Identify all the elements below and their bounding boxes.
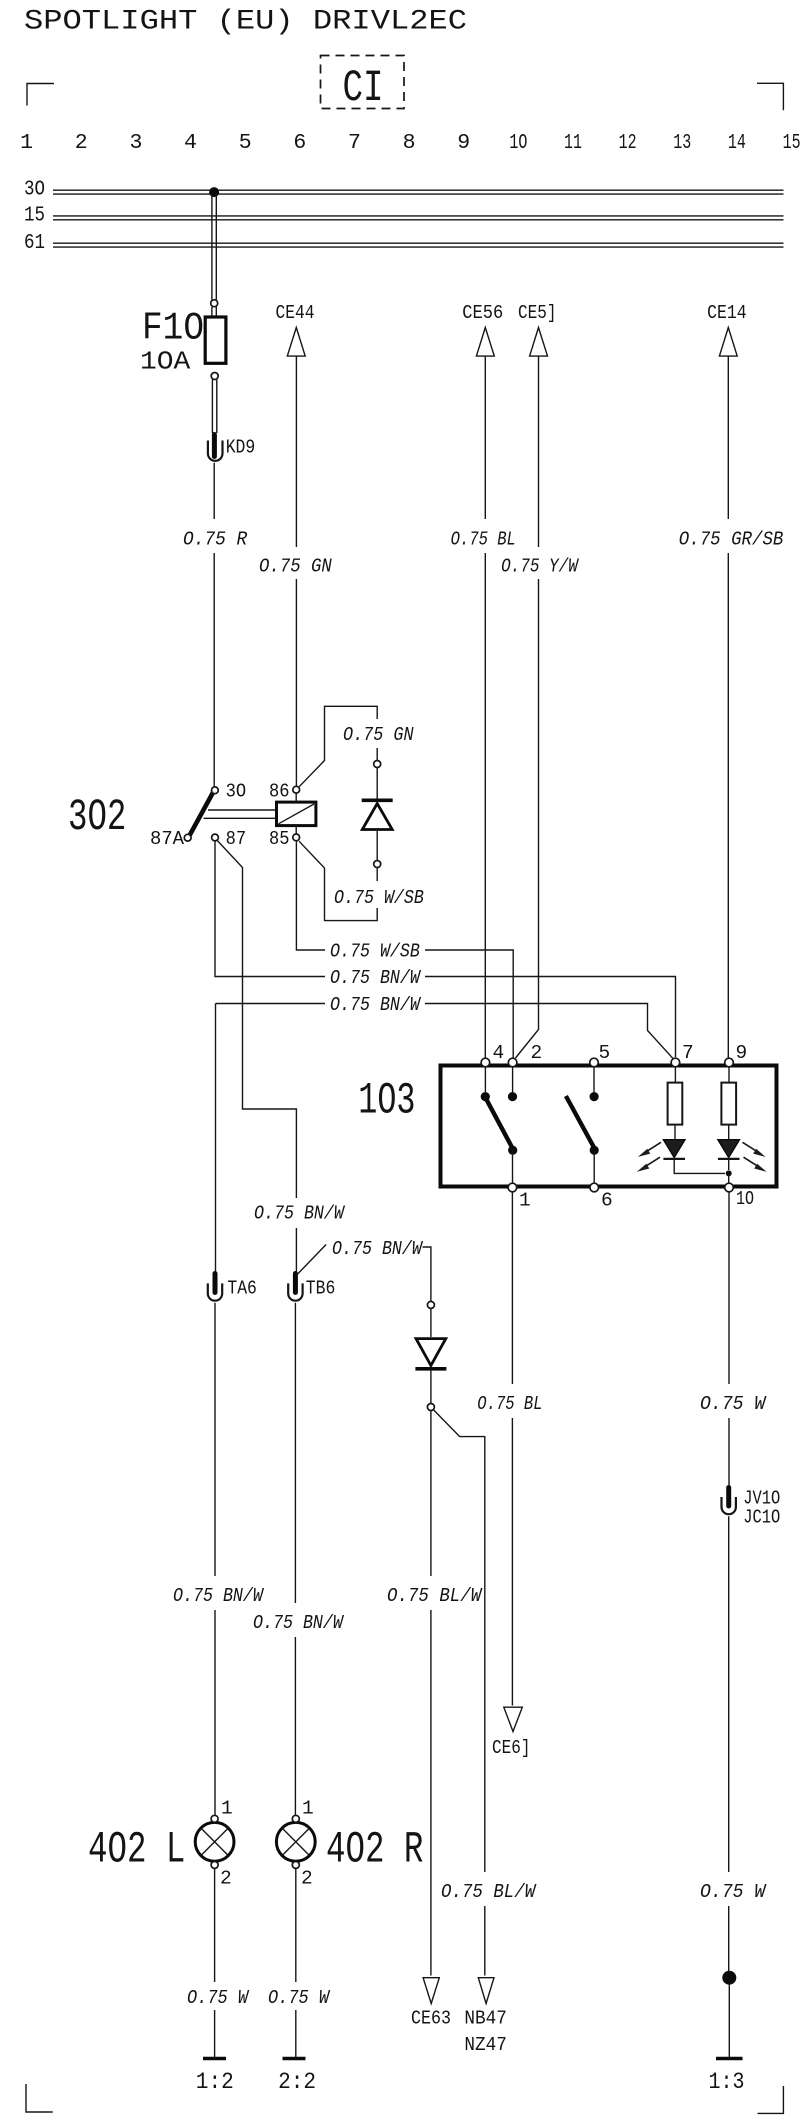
svg-text:CE6]: CE6] — [492, 1737, 531, 1759]
svg-text:4: 4 — [493, 1042, 505, 1064]
pin 87A — [184, 834, 191, 841]
switch 2 contact — [593, 1067, 595, 1092]
arrow CE61 — [492, 1707, 531, 1759]
wire to connector TA6 — [215, 1004, 217, 1273]
fuse F10 10A — [140, 306, 226, 376]
svg-text:O.75 W: O.75 W — [700, 1393, 767, 1415]
svg-text:6: 6 — [601, 1190, 613, 1212]
svg-text:8: 8 — [403, 131, 416, 155]
wire 87 to pin 7 (BN/W) — [215, 841, 676, 1057]
arrow CE56 — [462, 302, 503, 356]
svg-text:1OA: 1OA — [140, 347, 191, 377]
svg-text:O.75 W/SB: O.75 W/SB — [330, 941, 420, 963]
frame corner bottom-left — [26, 2084, 53, 2112]
frame corner top-right — [757, 83, 783, 110]
LED left emission arrows — [637, 1142, 661, 1172]
svg-text:KD9: KD9 — [226, 437, 256, 459]
wire to pin 1 — [512, 1150, 514, 1183]
svg-text:NZ47: NZ47 — [464, 2034, 507, 2056]
svg-text:O.75 GR/SB: O.75 GR/SB — [679, 529, 784, 551]
svg-text:85: 85 — [269, 828, 290, 850]
ground 2:2 — [278, 2059, 316, 2097]
pin 1 — [508, 1183, 517, 1192]
svg-text:O.75 W: O.75 W — [268, 1987, 331, 2009]
wire pin 10 to JV10 — [728, 1192, 730, 1486]
wire CE14 to pin 9 — [727, 356, 729, 1058]
svg-text:O.75 W: O.75 W — [187, 1987, 250, 2009]
connector TB6 — [288, 1274, 335, 1301]
svg-text:F1O: F1O — [142, 306, 204, 350]
wire to pin 6 — [593, 1150, 595, 1183]
svg-text:O.75 W/SB: O.75 W/SB — [334, 887, 424, 909]
svg-text:O.75 BN/W: O.75 BN/W — [173, 1585, 265, 1607]
svg-text:CE5]: CE5] — [518, 302, 557, 324]
pin 2 — [508, 1058, 517, 1067]
wire junction to pin 10 — [728, 1173, 730, 1183]
svg-text:CE56: CE56 — [462, 302, 503, 324]
svg-text:O.75 BL: O.75 BL — [477, 1393, 542, 1415]
wire JV10 to ground 1:3 — [728, 1516, 730, 1971]
svg-text:5: 5 — [239, 131, 252, 155]
wire to CE63 — [430, 1411, 432, 1976]
lamp 402 R — [276, 1798, 423, 1890]
svg-text:1: 1 — [519, 1190, 531, 1212]
svg-text:CE14: CE14 — [707, 302, 747, 324]
svg-text:4O2 R: 4O2 R — [326, 1825, 423, 1875]
node circle diode D2 top — [427, 1301, 434, 1308]
svg-text:4: 4 — [184, 131, 197, 155]
node CI (dashed box) — [321, 56, 405, 115]
svg-text:O.75 BL/W: O.75 BL/W — [387, 1585, 483, 1607]
pin 85 — [293, 834, 300, 841]
svg-text:14: 14 — [728, 131, 746, 155]
wire lamp-L branch to pin 7 (BN/W) — [216, 1004, 674, 1059]
bus 15 — [24, 205, 784, 228]
wire branch to NB47 — [433, 1410, 485, 1976]
svg-text:O.75 BL/W: O.75 BL/W — [441, 1881, 537, 1903]
svg-text:61: 61 — [24, 232, 45, 255]
svg-text:O.75 W: O.75 W — [700, 1881, 767, 1903]
relay coil — [277, 802, 316, 826]
wire KD9 to relay 30 — [213, 463, 215, 787]
pin 4 — [481, 1058, 490, 1067]
relay linkage — [204, 810, 277, 818]
svg-text:15: 15 — [24, 205, 45, 228]
svg-text:9: 9 — [457, 131, 470, 155]
svg-text:1O: 1O — [509, 131, 527, 155]
svg-text:7: 7 — [348, 131, 361, 155]
wire lamp R to ground 2:2 — [295, 1868, 297, 2057]
svg-text:TB6: TB6 — [306, 1277, 336, 1299]
node circle diode bottom — [374, 861, 381, 868]
frame corner bottom-right — [758, 2086, 784, 2113]
svg-text:6: 6 — [293, 131, 306, 155]
svg-text:7: 7 — [682, 1042, 694, 1064]
svg-text:TA6: TA6 — [227, 1277, 257, 1299]
wire branch to diode D2 with label 0.75 BN/W — [296, 1245, 431, 1302]
wire LED right to junction — [728, 1159, 730, 1170]
wire CE51 to pin 2 — [516, 356, 539, 1058]
pin 10 — [725, 1183, 734, 1192]
pin 7 — [671, 1058, 680, 1067]
pin 86 — [293, 786, 300, 793]
wire TB6 to lamp 402R — [294, 1303, 296, 1816]
arrow CE51 — [518, 302, 557, 356]
resistor (LED left) — [674, 1067, 676, 1083]
wire CE44 to relay 86 — [295, 356, 297, 786]
pin 87 — [212, 834, 219, 841]
svg-text:1O: 1O — [736, 1188, 754, 1210]
svg-text:13: 13 — [673, 131, 691, 155]
svg-text:O.75 R: O.75 R — [183, 529, 247, 551]
splice dot — [722, 1971, 736, 1985]
switch 2 arm — [566, 1096, 594, 1147]
svg-text:3O: 3O — [24, 179, 45, 202]
ground 1:2 — [196, 2059, 234, 2097]
bus 61 — [24, 232, 784, 255]
wire coil stubs — [295, 793, 297, 834]
svg-text:3O: 3O — [226, 781, 247, 803]
svg-text:O.75 GN: O.75 GN — [343, 724, 414, 746]
svg-text:2: 2 — [75, 131, 88, 155]
svg-text:NB47: NB47 — [464, 2007, 507, 2029]
svg-text:12: 12 — [619, 131, 637, 155]
svg-text:1: 1 — [20, 131, 33, 155]
arrow CE14 — [707, 302, 747, 356]
svg-text:1:3: 1:3 — [709, 2069, 745, 2096]
svg-text:87: 87 — [226, 828, 247, 850]
svg-text:15: 15 — [783, 131, 801, 155]
pin 30 — [212, 787, 219, 794]
node circle diode top — [374, 761, 381, 768]
diode D1 (relay suppression) — [362, 800, 393, 829]
switch 1 arm — [486, 1099, 512, 1147]
pin 9 — [725, 1058, 734, 1067]
svg-text:1: 1 — [302, 1798, 314, 1820]
node circle above fuse — [211, 300, 218, 307]
LED right emission arrows — [743, 1142, 767, 1172]
svg-text:O.75 BN/W: O.75 BN/W — [254, 1203, 346, 1225]
svg-text:2: 2 — [531, 1042, 543, 1064]
wire LED left to junction — [674, 1159, 725, 1174]
ground 1:3 — [709, 2059, 745, 2097]
svg-text:87A: 87A — [150, 828, 184, 850]
wire diode loop to 85 — [299, 841, 377, 920]
wire — [430, 1308, 432, 1337]
arrow CE63 — [411, 1978, 451, 2030]
node circle below fuse — [211, 373, 218, 380]
svg-text:CI: CI — [343, 64, 384, 114]
switch 1 contacts — [485, 1067, 512, 1092]
column numbers 1-15 — [20, 131, 800, 155]
svg-text:O.75 BN/W: O.75 BN/W — [330, 994, 422, 1016]
svg-text:O.75 BL: O.75 BL — [451, 529, 516, 551]
wire — [376, 830, 378, 861]
pin 5 — [590, 1058, 599, 1067]
svg-text:O.75 BN/W: O.75 BN/W — [330, 967, 422, 989]
svg-text:9: 9 — [736, 1042, 748, 1064]
LED right — [718, 1140, 740, 1159]
wire diode loop from 86 — [299, 706, 378, 787]
svg-text:86: 86 — [269, 781, 290, 803]
svg-text:3: 3 — [129, 131, 142, 155]
wire — [212, 307, 216, 317]
wire (double, fuse to connector KD9) — [212, 380, 216, 433]
arrow CE44 — [276, 302, 315, 356]
arrow NB47 NZ47 — [464, 1978, 507, 2056]
svg-text:11: 11 — [564, 131, 582, 155]
wire — [376, 768, 378, 799]
junction dot LEDs — [726, 1170, 732, 1176]
connector KD9 — [208, 435, 255, 461]
wire (double feed from bus 30 to fuse) — [212, 193, 216, 300]
svg-text:CE63: CE63 — [411, 2007, 451, 2029]
svg-text:2:2: 2:2 — [278, 2069, 316, 2096]
resistor (LED right) — [728, 1067, 730, 1083]
svg-text:O.75 BN/W: O.75 BN/W — [253, 1612, 345, 1634]
svg-text:1: 1 — [221, 1798, 233, 1820]
wire 87 via diagonal to TB6 — [217, 840, 297, 1272]
svg-text:SPOTLIGHT (EU) DRIVL2EC: SPOTLIGHT (EU) DRIVL2EC — [24, 7, 467, 38]
svg-text:4O2 L: 4O2 L — [88, 1825, 185, 1875]
wire lamp L to ground 1:2 — [214, 1868, 216, 2057]
bus 30 — [24, 179, 784, 202]
diode D2 — [415, 1339, 446, 1369]
frame corner top-left — [27, 84, 54, 106]
wire — [728, 1985, 730, 2058]
svg-text:1O3: 1O3 — [358, 1077, 415, 1127]
svg-text:2: 2 — [301, 1868, 313, 1890]
unit 103 box — [441, 1066, 777, 1187]
junction on bus 30 — [209, 187, 219, 197]
pin 6 — [590, 1183, 599, 1192]
svg-text:1:2: 1:2 — [196, 2069, 234, 2096]
wire TA6 to lamp 402L — [214, 1303, 216, 1816]
svg-text:2: 2 — [220, 1868, 232, 1890]
svg-text:O.75 Y/W: O.75 Y/W — [501, 556, 580, 578]
wire CE56 to pin 4 — [484, 356, 486, 1058]
svg-text:CE44: CE44 — [276, 302, 315, 324]
lamp 402 L — [88, 1798, 234, 1890]
node circle diode D2 bottom — [427, 1404, 434, 1411]
wire — [430, 1371, 432, 1404]
svg-text:O.75 GN: O.75 GN — [259, 556, 332, 578]
wire 85 to pin 2 (W/SB) — [296, 841, 513, 1058]
connector TA6 — [208, 1274, 257, 1301]
svg-text:JC1O: JC1O — [743, 1507, 780, 1529]
wire pin 1 to CE61 — [511, 1192, 513, 1706]
svg-text:O.75 BN/W: O.75 BN/W — [332, 1238, 424, 1260]
svg-text:3O2: 3O2 — [68, 793, 126, 843]
svg-text:5: 5 — [599, 1042, 611, 1064]
relay switch arm — [190, 793, 214, 836]
LED left — [663, 1140, 685, 1159]
connector JV10 JC10 — [722, 1488, 781, 1529]
